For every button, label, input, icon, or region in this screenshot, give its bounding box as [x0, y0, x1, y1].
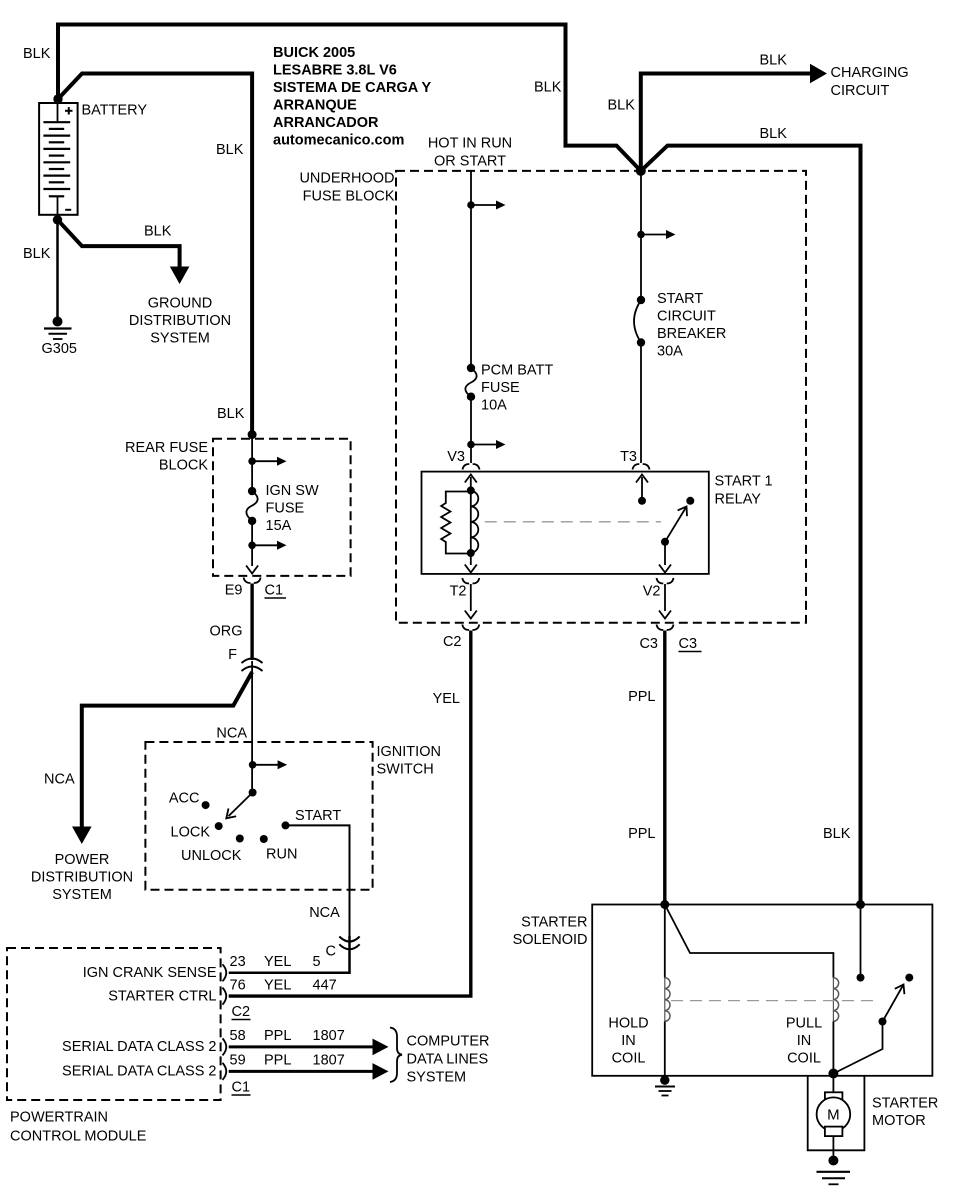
svg-text:SYSTEM: SYSTEM [52, 887, 112, 903]
svg-text:M: M [827, 1107, 840, 1124]
solenoid switch blade [883, 985, 904, 1022]
svg-text:DISTRIBUTION: DISTRIBUTION [31, 870, 133, 886]
svg-text:PCM BATT: PCM BATT [481, 363, 553, 379]
pin C3 connector [657, 625, 674, 631]
wire to fuse [251, 435, 253, 492]
svg-text:NCA: NCA [216, 726, 247, 742]
svg-text:15A: 15A [266, 518, 292, 534]
rear fuse block box [213, 439, 351, 576]
svg-text:COIL: COIL [612, 1051, 646, 1067]
wire PPL C3 to solenoid [663, 631, 666, 905]
svg-text:BLK: BLK [608, 98, 636, 114]
svg-text:DATA LINES: DATA LINES [407, 1052, 489, 1068]
fuse F1 PCM BATT 10A [465, 368, 476, 397]
wire main battery feed top [58, 25, 641, 171]
svg-text:IN: IN [621, 1033, 636, 1049]
wire fuse to E9 [251, 521, 253, 566]
svg-text:UNDERHOOD: UNDERHOOD [299, 171, 394, 187]
arrow down to E9 [246, 566, 258, 574]
svg-text:C2: C2 [232, 1004, 251, 1020]
coil hold in [665, 978, 670, 1022]
node battery positive terminal [53, 94, 62, 103]
svg-text:SERIAL DATA CLASS 2: SERIAL DATA CLASS 2 [62, 1039, 216, 1055]
svg-text:G305: G305 [42, 341, 77, 357]
svg-text:GROUND: GROUND [148, 296, 212, 312]
connector C inline [339, 937, 359, 942]
pin V3 entry arrow [470, 477, 472, 490]
pin V2 connector [657, 578, 674, 584]
svg-text:T3: T3 [620, 449, 637, 465]
pin V3 connector [463, 464, 480, 470]
svg-text:SWITCH: SWITCH [377, 762, 434, 778]
svg-text:IGNITION: IGNITION [377, 744, 441, 760]
svg-text:BLK: BLK [216, 142, 244, 158]
svg-text:FUSE: FUSE [481, 380, 520, 396]
svg-text:RUN: RUN [266, 847, 297, 863]
wire breaker to T3 [640, 343, 642, 464]
wire battery negative to G305 [56, 220, 59, 317]
svg-text:C3: C3 [639, 636, 658, 652]
svg-text:FUSE BLOCK: FUSE BLOCK [303, 189, 395, 205]
svg-text:SOLENOID: SOLENOID [513, 932, 588, 948]
relay switch blade [665, 507, 687, 542]
wire BLK drop to contact [860, 905, 862, 978]
title block [273, 45, 432, 149]
pin E9 C1 connector [244, 578, 261, 584]
svg-text:BLK: BLK [760, 126, 788, 142]
svg-text:DISTRIBUTION: DISTRIBUTION [129, 313, 231, 329]
svg-text:REAR FUSE: REAR FUSE [125, 440, 208, 456]
node rear fuse entry [248, 430, 257, 439]
svg-text:T2: T2 [450, 584, 467, 600]
switch SW1 ignition blade [249, 789, 257, 797]
svg-text:PULL: PULL [786, 1016, 822, 1032]
svg-text:SISTEMA DE CARGA Y: SISTEMA DE CARGA Y [273, 80, 432, 96]
battery BAT1 [39, 103, 78, 215]
wire hold-in coil to ground [664, 1021, 666, 1075]
wire pull-in coil feed [665, 905, 834, 978]
svg-text:ORG: ORG [209, 624, 242, 640]
svg-text:CONTROL MODULE: CONTROL MODULE [10, 1129, 147, 1145]
svg-text:BLK: BLK [534, 80, 562, 96]
svg-text:SYSTEM: SYSTEM [150, 331, 210, 347]
svg-text:F: F [228, 647, 237, 663]
svg-text:BREAKER: BREAKER [657, 326, 726, 342]
svg-text:BUICK 2005: BUICK 2005 [273, 45, 355, 61]
arrow charging circuit [810, 64, 827, 83]
wire NCA to ignition switch [251, 661, 253, 793]
fuse F2 IGN SW 15A [246, 491, 257, 521]
wire serial data row1 [229, 1045, 374, 1048]
svg-text:automecanico.com: automecanico.com [273, 133, 404, 149]
node ACC contact [202, 801, 210, 809]
svg-text:COIL: COIL [787, 1051, 821, 1067]
svg-text:STARTER: STARTER [521, 915, 587, 931]
node motor junction [828, 1069, 838, 1079]
solenoid actuation dashed link [671, 1000, 877, 1002]
node tap with arrow [248, 542, 256, 550]
svg-text:C1: C1 [232, 1080, 251, 1096]
svg-text:YEL: YEL [433, 691, 460, 707]
svg-text:30A: 30A [657, 344, 683, 360]
svg-text:447: 447 [313, 978, 337, 994]
svg-text:C3: C3 [679, 636, 698, 652]
node tap with arrow [637, 231, 645, 239]
svg-text:LOCK: LOCK [171, 825, 211, 841]
svg-text:23: 23 [230, 954, 246, 970]
svg-text:LESABRE 3.8L V6: LESABRE 3.8L V6 [273, 63, 397, 79]
relay U1 START 1 RELAY box [422, 472, 709, 574]
starter motor box [808, 1076, 865, 1151]
wire hot in run feed [470, 171, 472, 368]
wire V2 to C3 [664, 584, 666, 611]
pin T3 connector [633, 464, 650, 470]
svg-text:BLK: BLK [823, 826, 851, 842]
svg-text:COMPUTER: COMPUTER [407, 1034, 490, 1050]
svg-text:IGN CRANK SENSE: IGN CRANK SENSE [83, 965, 217, 981]
arrow ground distribution [170, 267, 190, 285]
wire START contact to connector C [286, 825, 350, 938]
svg-text:10A: 10A [481, 398, 507, 414]
svg-text:ARRANQUE: ARRANQUE [273, 98, 357, 114]
pin C2 connector [462, 625, 479, 631]
node START contact [282, 821, 290, 829]
ground starter motor [828, 1156, 838, 1166]
svg-text:CIRCUIT: CIRCUIT [657, 309, 716, 325]
relay actuation dashed link [485, 521, 661, 523]
svg-text:V2: V2 [643, 584, 661, 600]
node LOCK contact [215, 822, 223, 830]
svg-text:SYSTEM: SYSTEM [407, 1070, 467, 1086]
svg-text:PPL: PPL [264, 1053, 291, 1069]
svg-text:STARTER CTRL: STARTER CTRL [108, 989, 216, 1005]
svg-text:1807: 1807 [313, 1028, 345, 1044]
node RUN contact [260, 835, 268, 843]
node tap with arrow [249, 761, 257, 769]
svg-text:BLK: BLK [23, 46, 51, 62]
wire pull-in coil to motor junction [832, 1021, 834, 1073]
svg-text:UNLOCK: UNLOCK [181, 848, 242, 864]
wire BLK to starter solenoid right side [641, 146, 861, 905]
node solenoid switch fixed contact [905, 974, 913, 982]
svg-text:BATTERY: BATTERY [82, 103, 148, 119]
svg-text:NCA: NCA [44, 772, 75, 788]
pin 58 bracket [223, 1038, 227, 1055]
wire hold-in coil feed [664, 905, 666, 978]
svg-text:ACC: ACC [169, 791, 200, 807]
svg-text:YEL: YEL [264, 978, 291, 994]
wire to ground distribution system [58, 220, 180, 268]
svg-text:ARRANCADOR: ARRANCADOR [273, 115, 379, 131]
wire ORG [250, 584, 253, 661]
svg-text:CHARGING: CHARGING [831, 65, 909, 81]
pin 59 bracket [223, 1063, 227, 1080]
svg-text:YEL: YEL [264, 954, 291, 970]
wire YEL C2 to PCM [229, 631, 471, 997]
svg-text:1807: 1807 [313, 1053, 345, 1069]
svg-text:OR START: OR START [434, 154, 506, 170]
wire serial data row2 [229, 1070, 374, 1073]
svg-text:MOTOR: MOTOR [872, 1113, 926, 1129]
wire T3 into relay [641, 477, 643, 501]
svg-text:PPL: PPL [264, 1028, 291, 1044]
svg-text:START 1: START 1 [715, 474, 773, 490]
svg-text:START: START [657, 291, 703, 307]
svg-text:BLK: BLK [23, 246, 51, 262]
svg-text:BLOCK: BLOCK [159, 458, 208, 474]
wire charging circuit branch [641, 74, 812, 171]
brace computer data lines [390, 1028, 402, 1083]
starter solenoid box [592, 905, 932, 1076]
svg-text:STARTER: STARTER [872, 1096, 938, 1112]
wire fuse to V3 [470, 397, 472, 463]
relay coil L1 [470, 490, 472, 553]
wire breaker feed [640, 171, 642, 300]
svg-text:CIRCUIT: CIRCUIT [831, 83, 890, 99]
svg-text:POWERTRAIN: POWERTRAIN [10, 1110, 108, 1126]
svg-text:FUSE: FUSE [266, 501, 305, 517]
powertrain control module box [7, 948, 221, 1100]
node PPL entry [660, 900, 669, 909]
svg-text:PPL: PPL [628, 826, 655, 842]
svg-text:NCA: NCA [309, 905, 340, 921]
node tap with arrow [467, 201, 475, 209]
resistor R1 relay parallel resistor [441, 492, 471, 554]
coil pull in [833, 978, 838, 1022]
wire C to PCM pin 23 [229, 936, 350, 973]
svg-text:POWER: POWER [55, 852, 110, 868]
svg-text:BLK: BLK [760, 53, 788, 69]
wire to power distribution system [82, 672, 252, 827]
node UNLOCK contact [236, 835, 244, 843]
wire V2 exit arrow [664, 542, 666, 565]
node tap with arrow [467, 441, 475, 449]
node tap with arrow [248, 457, 256, 465]
ignition switch box [145, 742, 372, 890]
svg-text:PPL: PPL [628, 689, 655, 705]
svg-text:START: START [295, 808, 341, 824]
svg-text:HOLD: HOLD [608, 1016, 648, 1032]
svg-text:V3: V3 [447, 449, 465, 465]
ground G305 [44, 317, 72, 340]
svg-text:IGN SW: IGN SW [266, 483, 319, 499]
node relay switch fixed contact [686, 497, 694, 505]
pin T2 connector [462, 578, 479, 584]
node battery negative terminal [53, 215, 62, 224]
node main BLK junction [636, 166, 646, 176]
svg-text:5: 5 [313, 954, 321, 970]
svg-text:SERIAL DATA CLASS 2: SERIAL DATA CLASS 2 [62, 1064, 216, 1080]
connector F inline [242, 659, 263, 664]
svg-text:E9: E9 [225, 583, 243, 599]
svg-text:HOT IN RUN: HOT IN RUN [428, 136, 512, 152]
motor M1 starter motor [832, 1074, 834, 1094]
svg-text:76: 76 [230, 978, 246, 994]
pin 23 bracket [223, 964, 227, 981]
svg-text:BLK: BLK [217, 406, 245, 422]
wire T2 to C2 [470, 584, 472, 611]
svg-text:BLK: BLK [144, 224, 172, 240]
arrow power distribution [72, 827, 92, 845]
svg-text:IN: IN [797, 1033, 812, 1049]
svg-text:59: 59 [230, 1053, 246, 1069]
svg-text:C: C [326, 944, 336, 960]
svg-text:C1: C1 [265, 583, 284, 599]
pin 76 bracket [223, 988, 227, 1005]
wire T2 exit arrow [470, 553, 472, 565]
circuit breaker CB1 30A [634, 300, 641, 343]
node BLK entry [856, 900, 865, 909]
svg-text:C2: C2 [443, 634, 462, 650]
wire battery positive to rear fuse block [58, 74, 252, 435]
svg-text:58: 58 [230, 1028, 246, 1044]
ground hold-in coil [660, 1076, 669, 1085]
svg-text:RELAY: RELAY [715, 492, 762, 508]
wire switch to motor junction [836, 1022, 883, 1073]
underhood fuse block box [396, 171, 806, 623]
